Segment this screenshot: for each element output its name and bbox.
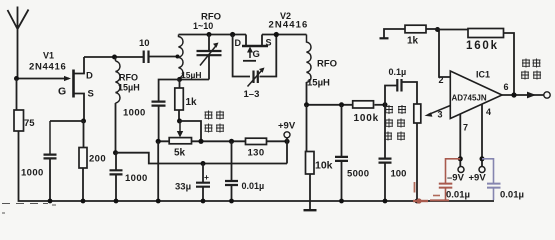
svg-text:1000: 1000 [21,168,44,179]
svg-text:15µH: 15µH [307,78,330,89]
svg-text:0.01µ: 0.01µ [242,181,265,191]
svg-text:1~10: 1~10 [193,21,213,31]
svg-text:G: G [253,49,260,60]
svg-text:10: 10 [139,38,150,49]
svg-text:IC1: IC1 [476,70,490,80]
svg-text:5000: 5000 [347,169,369,180]
svg-text:3: 3 [438,110,443,120]
svg-text:100: 100 [391,169,407,180]
svg-text:1–3: 1–3 [244,89,260,100]
svg-text:6: 6 [504,82,509,92]
svg-text:S: S [266,38,272,48]
svg-text:D: D [235,38,242,48]
svg-text:V1: V1 [43,51,54,61]
svg-text:+: + [204,172,209,182]
svg-text:33µ: 33µ [175,182,191,193]
svg-text:5k: 5k [174,148,186,159]
svg-text:0.1µ: 0.1µ [389,67,407,77]
svg-text:D: D [86,71,93,82]
svg-text:AD745JN: AD745JN [452,94,487,103]
svg-text:7: 7 [463,123,468,133]
svg-text:4: 4 [486,107,491,117]
svg-text:+9V: +9V [278,121,296,132]
svg-text:1k: 1k [407,36,419,47]
svg-text:2N4416: 2N4416 [269,20,309,31]
svg-text:15µH: 15µH [118,83,140,93]
svg-text:2N4416: 2N4416 [29,62,66,73]
svg-text:RFO: RFO [317,59,337,70]
svg-text:0.01µ: 0.01µ [500,190,524,201]
svg-text:0.01µ: 0.01µ [446,190,470,201]
svg-text:RFO: RFO [119,73,138,83]
svg-text:–9V: –9V [447,173,465,184]
svg-text:160k: 160k [466,40,499,52]
svg-text:S: S [88,89,94,100]
svg-text:1000: 1000 [125,173,148,184]
svg-text:200: 200 [89,154,106,165]
svg-text:100k: 100k [354,113,379,124]
svg-text:75: 75 [24,118,35,129]
svg-text:G: G [58,86,66,98]
svg-text:1000: 1000 [123,108,146,119]
svg-text:10k: 10k [315,160,333,172]
svg-text:1k: 1k [186,97,198,108]
svg-text:+9V: +9V [469,173,487,184]
svg-text:130: 130 [248,148,265,159]
svg-text:15µH: 15µH [181,70,202,80]
